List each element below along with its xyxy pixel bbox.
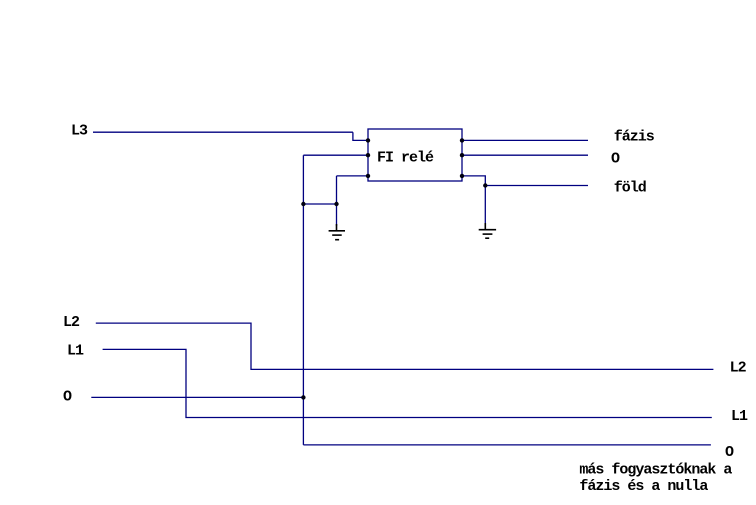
wire föld output step: [462, 176, 485, 186]
node C junction föld: [483, 183, 487, 187]
wire L1 row: [103, 349, 712, 417]
wire O feed to FI relé pin 2: [303, 154, 368, 156]
wire L2 row: [96, 323, 714, 369]
ground symbol left: [329, 224, 345, 240]
svg-text:O: O: [63, 388, 72, 405]
wire fázis output: [462, 139, 588, 141]
node pin5 right: [460, 153, 464, 157]
svg-text:L3: L3: [71, 123, 88, 140]
svg-text:FI relé: FI relé: [377, 150, 434, 167]
wire jumper node A to ground stem: [303, 203, 336, 205]
node D junction O net: [301, 395, 305, 399]
wire O row bottom: [303, 444, 711, 446]
svg-text:fázis és a nulla: fázis és a nulla: [579, 478, 708, 495]
node pin2 left: [366, 153, 370, 157]
svg-text:O: O: [725, 444, 734, 461]
FI relé box U1: [368, 129, 462, 181]
wire O output: [462, 154, 588, 156]
node A junction: [301, 202, 305, 206]
svg-text:L1: L1: [731, 408, 748, 425]
wire L3 step down to FI relé pin 1: [353, 132, 368, 140]
wire föld output horizontal: [485, 185, 588, 187]
svg-text:O: O: [611, 151, 620, 168]
svg-text:fázis: fázis: [614, 129, 655, 146]
node pin6 right: [460, 174, 464, 178]
wire earth to FI relé pin 3: [337, 175, 369, 177]
svg-text:L1: L1: [67, 342, 84, 359]
wire L3 horizontal: [93, 131, 353, 133]
svg-text:föld: föld: [614, 180, 646, 197]
node pin3 left: [366, 174, 370, 178]
svg-text:más fogyasztóknak a: más fogyasztóknak a: [579, 462, 732, 479]
node pin4 right: [460, 138, 464, 142]
wire O row left: [91, 396, 303, 398]
node B junction ground stem: [334, 202, 338, 206]
svg-text:L2: L2: [63, 314, 80, 331]
ground symbol right: [479, 223, 496, 238]
wire vertical drop from earth pin: [336, 176, 338, 226]
node pin1 left: [366, 138, 370, 142]
svg-text:L2: L2: [730, 360, 747, 377]
wire drop to right ground: [484, 186, 486, 225]
wire main neutral vertical: [302, 155, 304, 445]
